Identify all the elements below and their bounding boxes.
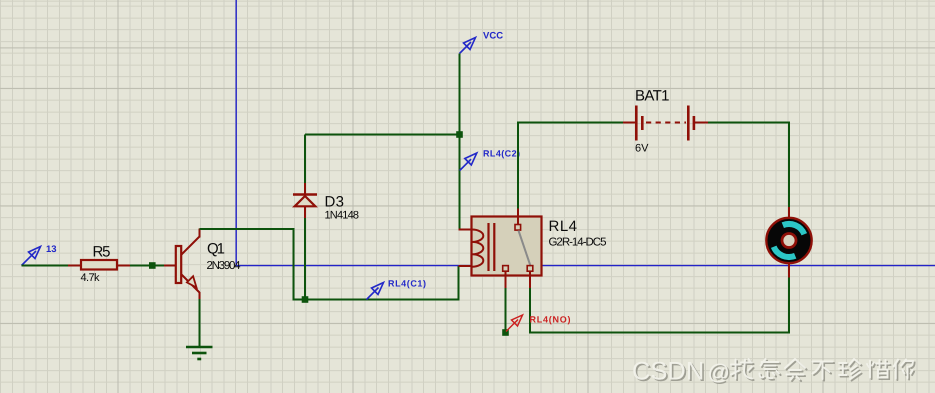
core lines <box>487 223 489 271</box>
relay RL4 <box>459 209 542 289</box>
end dot <box>502 329 509 336</box>
sheet border vertical blue line <box>235 0 237 266</box>
wire VCC to relay coil top <box>459 54 461 230</box>
RL4(NO) terminal arrow <box>506 315 523 332</box>
svg-text:1N4148: 1N4148 <box>325 209 360 221</box>
svg-text:BAT1: BAT1 <box>635 87 670 104</box>
wire relay top pin to battery <box>518 123 623 209</box>
wire relay common pin dangling <box>505 288 507 333</box>
wire relay coil bottom to C1 rail <box>458 266 460 301</box>
svg-text:R5: R5 <box>93 244 111 261</box>
svg-text:RL4(NO): RL4(NO) <box>530 315 571 325</box>
RL4(C1) terminal arrow <box>367 283 384 300</box>
coil arcs <box>472 230 483 267</box>
svg-text:RL4: RL4 <box>549 218 578 235</box>
wire battery to motor top <box>708 123 789 208</box>
ground <box>186 347 213 359</box>
VCC terminal arrow <box>460 38 476 54</box>
diode D3 <box>293 183 317 218</box>
svg-text:2N3904: 2N3904 <box>207 260 242 272</box>
junction dot D3 bottom <box>302 296 309 303</box>
junction dot <box>149 262 156 269</box>
wire motor bottom to relay NO pin <box>530 278 789 333</box>
battery BAT1 <box>623 106 708 141</box>
svg-text:Q1: Q1 <box>207 241 225 258</box>
wire Q1 collector <box>200 229 459 300</box>
svg-text:VCC: VCC <box>483 31 503 42</box>
svg-text:13: 13 <box>46 244 57 255</box>
svg-text:4.7k: 4.7k <box>81 272 101 284</box>
sheet border horizontal blue line <box>236 265 935 267</box>
wire R5 to Q1 base <box>130 265 164 267</box>
terminal 13 arrow <box>22 247 41 266</box>
wire input to R5 <box>22 265 69 267</box>
wire Q1 emitter to ground <box>199 299 201 347</box>
svg-text:D3: D3 <box>325 194 345 211</box>
coil pin stubs <box>459 229 472 231</box>
junction dot VCC rail <box>456 131 463 138</box>
svg-text:RL4(C1): RL4(C1) <box>388 279 426 289</box>
body <box>472 217 542 276</box>
RL4(C2) terminal arrow <box>460 153 477 171</box>
svg-text:G2R-14-DC5: G2R-14-DC5 <box>549 237 607 249</box>
resistor R5 <box>68 260 130 270</box>
svg-text:RL4(C2): RL4(C2) <box>483 148 520 158</box>
svg-text:6V: 6V <box>635 142 649 154</box>
motor <box>766 207 811 278</box>
wire D3 top to VCC rail <box>304 217 306 300</box>
transistor Q1 <box>164 229 200 300</box>
switch blade <box>519 231 531 267</box>
bottom pin squares <box>503 266 509 272</box>
top pin square <box>517 209 519 225</box>
